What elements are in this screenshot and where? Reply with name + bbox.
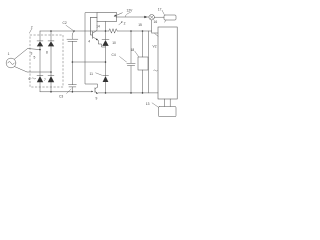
svg-text:12V: 12V [127, 9, 134, 13]
dashed bridge module box 2 [30, 35, 63, 87]
capacitor C2 [73, 30, 75, 32]
svg-text:4: 4 [88, 39, 90, 43]
top rail wire [40, 30, 109, 32]
squiggle mark [154, 70, 158, 71]
node zener-mid [105, 61, 107, 63]
arrowhead on lamp wire [144, 16, 147, 18]
svg-text:2: 2 [31, 26, 33, 30]
svg-text:C4: C4 [112, 53, 116, 57]
node C2-C3 midpoint [72, 61, 74, 63]
bottom rail right [98, 92, 158, 94]
svg-text:8: 8 [46, 51, 48, 55]
svg-text:13: 13 [146, 102, 150, 106]
diode 8 (bottom-right) [48, 72, 54, 92]
transistor 4 [91, 17, 98, 38]
wire AC top input to bridge [14, 49, 40, 60]
svg-text:C2: C2 [63, 21, 67, 25]
svg-text:9: 9 [96, 97, 98, 101]
lamp to small box wire [155, 16, 165, 18]
top rail wire right part [117, 30, 151, 32]
wire left branch middle [39, 50, 41, 76]
diode 5 (top-left) [37, 31, 43, 50]
label 12 [119, 22, 122, 25]
wire AC bottom input to bridge [15, 67, 51, 72]
svg-text:15: 15 [138, 23, 142, 27]
resistor 10 zigzag [109, 29, 117, 33]
relay coil box 14 [97, 13, 117, 22]
wire contact to lamp [116, 16, 149, 18]
svg-text:6: 6 [29, 77, 31, 81]
main IC box [158, 27, 177, 99]
node rail-right-branch [50, 30, 52, 32]
V2 arrow annotation [155, 33, 159, 36]
svg-text:11: 11 [90, 72, 94, 76]
relay coil stub to rail [105, 22, 107, 32]
component box 17 [164, 15, 176, 20]
lamp 16 [149, 14, 155, 20]
diode 11 [103, 76, 109, 93]
svg-text:C3: C3 [59, 95, 63, 99]
AC source 1 [6, 58, 16, 68]
transistor 9 [94, 88, 96, 93]
lamp bottom lead [152, 20, 158, 33]
lower box 13 [159, 107, 177, 117]
zener diode 10 branch [102, 31, 109, 76]
wire vertical x148.5 [148, 31, 150, 93]
node B (right branch midpoint) [50, 71, 52, 73]
svg-text:17: 17 [158, 8, 162, 12]
diode 6 (bottom-left) [37, 76, 43, 92]
svg-text:16: 16 [154, 20, 158, 24]
capacitor C3 [68, 62, 76, 92]
svg-text:18: 18 [131, 48, 135, 52]
diode 7 (top-right) [48, 31, 54, 72]
svg-text:3: 3 [31, 52, 33, 56]
node A (left branch midpoint) [39, 49, 41, 51]
svg-text:V2: V2 [153, 45, 157, 49]
svg-text:5: 5 [34, 56, 36, 60]
relay contact arm 12 [115, 13, 122, 16]
capacitor C4 [130, 30, 132, 32]
svg-text:7: 7 [44, 78, 46, 82]
wire midpoint horizontal [72, 61, 105, 63]
svg-text:2: 2 [124, 22, 126, 26]
long vertical wire from relay to Q9 [85, 13, 98, 88]
svg-text:10: 10 [112, 41, 116, 45]
svg-text:1: 1 [8, 52, 10, 56]
resistor box 18 branch [142, 30, 144, 32]
bottom rail left [40, 91, 92, 93]
